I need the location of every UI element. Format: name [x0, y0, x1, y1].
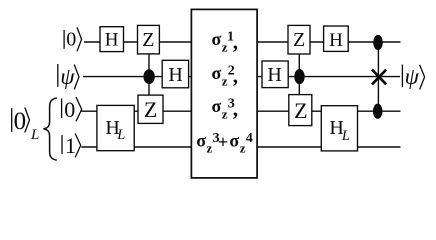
svg-text:+: +: [218, 132, 228, 152]
svg-text:H: H: [168, 64, 182, 86]
svg-text:H: H: [329, 30, 343, 51]
svg-text:L: L: [341, 128, 350, 144]
svg-text:z: z: [240, 140, 246, 155]
svg-text:σ: σ: [212, 63, 222, 83]
svg-text:Z: Z: [144, 97, 157, 122]
svg-text:1: 1: [65, 133, 76, 158]
svg-text:z: z: [222, 74, 228, 89]
svg-text:L: L: [116, 127, 125, 143]
svg-text:0: 0: [66, 29, 76, 51]
svg-text:σ: σ: [212, 29, 222, 49]
svg-text:,: ,: [233, 97, 238, 121]
svg-text:z: z: [222, 107, 228, 122]
svg-text:σ: σ: [212, 96, 222, 116]
svg-text:σ: σ: [196, 130, 206, 150]
svg-text:Z: Z: [294, 98, 307, 123]
svg-text:ψ: ψ: [60, 64, 75, 89]
svg-text:L: L: [30, 127, 39, 143]
svg-text:ψ: ψ: [405, 64, 420, 89]
svg-text:H: H: [267, 64, 281, 86]
svg-text:σ: σ: [229, 130, 239, 150]
svg-text:Z: Z: [293, 29, 305, 51]
svg-text:,: ,: [233, 64, 238, 88]
svg-text:0: 0: [64, 97, 75, 122]
svg-text:z: z: [207, 140, 213, 155]
svg-text:0: 0: [14, 108, 27, 135]
svg-text:4: 4: [246, 131, 253, 146]
svg-text:Z: Z: [142, 29, 154, 51]
svg-text:H: H: [105, 29, 119, 50]
svg-text:,: ,: [233, 30, 238, 54]
